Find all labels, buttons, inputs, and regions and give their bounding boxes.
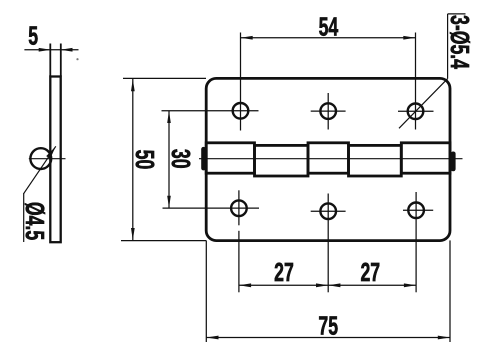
front view: knuckle segment 2 (lower) [255,145,309,176]
front view: pin end (left, solid) [201,147,206,171]
svg-text:30: 30 [166,149,195,169]
dimension 50: value label (rotated) [130,150,159,170]
label 3-diameter 5.4 (rotated) [445,15,474,70]
dimension 27 left: value label [274,258,294,287]
leader line for hole diameter 4.5 [24,146,56,242]
front view: screw hole top-right [408,104,424,120]
front view: pin end (right, solid) [451,152,456,172]
front view: screw hole bottom-right [408,203,424,219]
front view: hinge body rounded rectangle [206,78,450,240]
svg-text:50: 50 [130,150,159,170]
svg-text:5: 5 [28,21,38,50]
center mark cross: bottom-right hole [403,192,433,292]
dimension 75: dimension line with arrows [206,336,450,340]
front view: knuckle segment 4 (lower) [349,145,402,176]
label diameter 4.5 (rotated) [20,202,49,240]
dimension 30: value label (rotated) [166,149,195,169]
center mark cross: bottom-center hole [311,194,346,293]
dimension 30: dimension line with arrows [167,111,171,208]
center mark cross: top-center hole [311,93,346,130]
front view: screw hole top-left [233,103,249,119]
front view: screw hole bottom-center [320,203,336,219]
front view: pin axis center line [199,158,463,160]
center mark cross: top-left hole (h line doubles as 30-dim extension) [162,33,259,131]
side view: hinge leaf plate outline [50,77,60,243]
dimension 5: extension lines [50,44,61,77]
dimension 75: value label [318,311,338,340]
leader for 3 holes diameter 5.4: diagonal through top-right hole [399,14,466,128]
dimension 54: dimension line with arrows [241,36,416,40]
svg-text:27: 27 [274,258,294,287]
front view: knuckle segment 3 (upper) [308,143,349,173]
dimension 5: value label [28,21,38,50]
dimension 75: extension lines (side edges extended down) [206,240,450,342]
dimension 50: extension lines (top & bottom edges extended) [121,78,206,240]
front view: knuckle segment 1 (upper) [206,143,254,173]
center mark cross: top-right hole (v line doubles as 54-dim extension) [398,33,434,130]
dimension 27 right: value label [360,258,380,287]
center mark cross: bottom-left hole (extends down as 27-dim extension) [163,190,260,292]
front view: knuckle segment 5 (upper) [401,143,450,173]
dimension 5: dimension line with arrows [24,48,78,52]
dimension 27 (left) and 27 (right): chained dimension line with arrows [239,283,416,287]
side view: pin center line [29,158,66,160]
scan speck artifact [76,58,78,60]
front view: screw hole top-center [320,103,336,119]
svg-text:3-Ø5.4: 3-Ø5.4 [445,15,474,70]
front view: screw hole bottom-left [231,200,247,216]
svg-text:Ø4.5: Ø4.5 [20,202,49,240]
svg-text:27: 27 [360,258,380,287]
svg-text:54: 54 [319,12,339,41]
dimension 50: dimension line with arrows [131,78,135,240]
dimension 54: value label [319,12,339,41]
side view: knuckle barrel circle [30,148,51,169]
svg-text:75: 75 [318,311,338,340]
